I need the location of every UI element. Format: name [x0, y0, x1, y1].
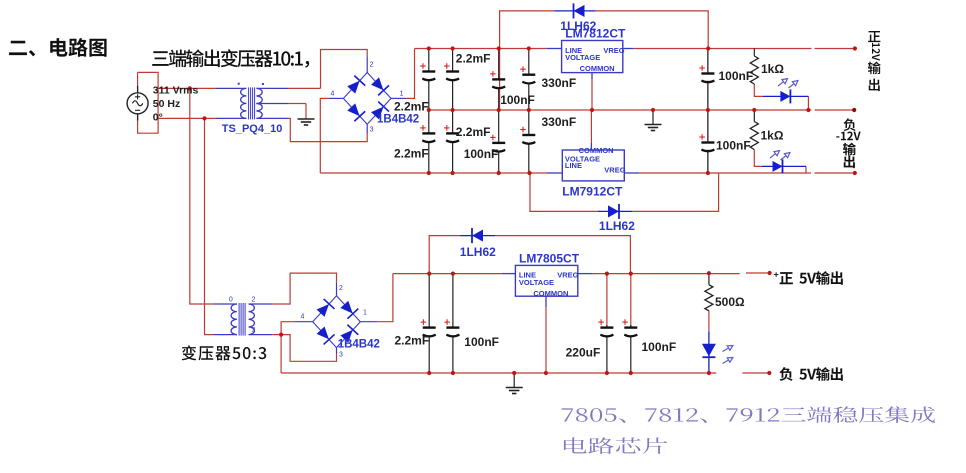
svg-text:2: 2: [370, 62, 374, 69]
svg-text:LM7805CT: LM7805CT: [519, 252, 580, 266]
svg-text:LM7812CT: LM7812CT: [565, 27, 626, 41]
svg-text:COMMON: COMMON: [533, 289, 568, 298]
svg-text:+: +: [774, 270, 779, 280]
svg-text:3: 3: [252, 327, 256, 334]
svg-text:100nF: 100nF: [500, 93, 535, 107]
svg-text:VOLTAGE: VOLTAGE: [519, 278, 554, 287]
svg-text:3: 3: [370, 127, 374, 134]
svg-text:1kΩ: 1kΩ: [761, 62, 784, 76]
svg-text:4: 4: [301, 314, 305, 321]
svg-text:4: 4: [331, 91, 335, 98]
svg-text:1: 1: [400, 91, 404, 98]
svg-text:500Ω: 500Ω: [715, 295, 745, 309]
svg-text:330nF: 330nF: [542, 76, 577, 90]
svg-text:VREG: VREG: [604, 166, 625, 175]
svg-text:2.2mF: 2.2mF: [456, 125, 491, 139]
svg-text:1LH62: 1LH62: [599, 219, 635, 233]
svg-text:1: 1: [363, 310, 367, 317]
svg-text:1B4B42: 1B4B42: [338, 338, 380, 350]
svg-text:0°: 0°: [153, 112, 163, 124]
svg-text:100nF: 100nF: [464, 147, 499, 161]
svg-text:220uF: 220uF: [566, 346, 601, 360]
svg-text:311 Vrms: 311 Vrms: [153, 85, 199, 97]
svg-text:100nF: 100nF: [716, 139, 751, 153]
svg-text:3: 3: [339, 352, 343, 359]
svg-text:330nF: 330nF: [542, 115, 577, 129]
svg-text:1B4B42: 1B4B42: [377, 113, 419, 125]
svg-text:0: 0: [229, 297, 233, 304]
svg-text:100nF: 100nF: [464, 335, 499, 349]
svg-text:VREG: VREG: [603, 46, 624, 55]
svg-text:LM7912CT: LM7912CT: [562, 184, 623, 198]
svg-text:TS_PQ4_10: TS_PQ4_10: [222, 123, 283, 135]
svg-text:2.2mF: 2.2mF: [395, 334, 430, 348]
svg-text:2.2mF: 2.2mF: [456, 52, 491, 66]
svg-text:VOLTAGE: VOLTAGE: [565, 53, 600, 62]
svg-text:2: 2: [252, 297, 256, 304]
svg-text:1kΩ: 1kΩ: [761, 129, 784, 143]
svg-text:2: 2: [339, 285, 343, 292]
svg-text:2.2mF: 2.2mF: [394, 100, 429, 114]
svg-text:50 Hz: 50 Hz: [153, 98, 180, 110]
svg-text:2.2mF: 2.2mF: [394, 147, 429, 161]
svg-text:VREG: VREG: [557, 271, 578, 280]
svg-text:1LH62: 1LH62: [460, 245, 496, 259]
svg-text:100nF: 100nF: [719, 69, 754, 83]
svg-text:COMMON: COMMON: [580, 64, 615, 73]
svg-text:LINE: LINE: [565, 161, 582, 170]
svg-text:100nF: 100nF: [642, 340, 677, 354]
